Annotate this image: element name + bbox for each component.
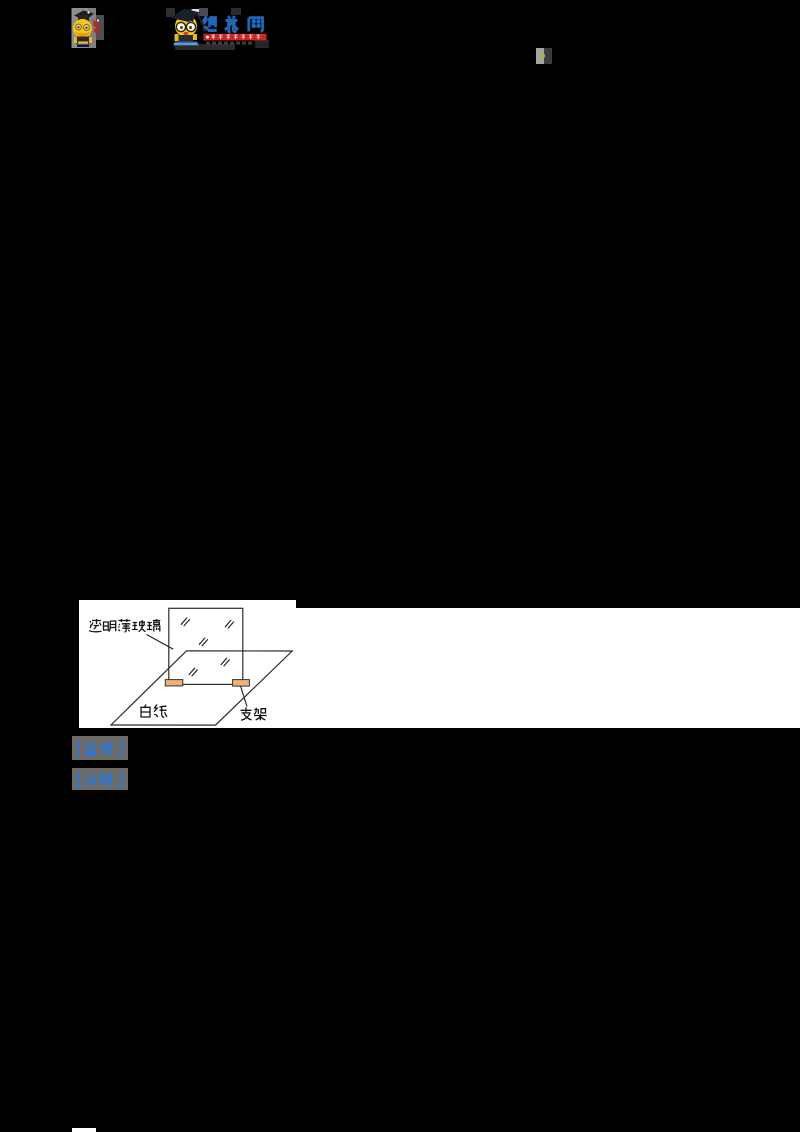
logo-left graduation cap (74, 11, 94, 21)
char 白 (141, 705, 150, 718)
logo-right grey caption row (206, 42, 252, 45)
char 答 (85, 743, 97, 756)
char 薄 (118, 619, 130, 632)
logo-right blue char 网 (249, 18, 263, 32)
support block right (233, 680, 250, 687)
hatch mark 1 (181, 618, 189, 626)
logo-left body (77, 37, 90, 45)
bracket left (78, 742, 81, 756)
logo-right faint mosaic patches (166, 8, 175, 17)
hatch mark 4 (221, 658, 229, 666)
char 纸 (154, 705, 167, 718)
logo-left sparkles (87, 11, 89, 13)
bracket left (78, 773, 81, 787)
char 璃 (147, 619, 161, 632)
white paper parallelogram (111, 651, 292, 725)
hatch mark 5 (189, 668, 197, 676)
logo-left grey backdrop (72, 8, 89, 48)
leader line to support label (241, 686, 248, 707)
char 明 (104, 621, 116, 632)
bracket right (119, 773, 122, 787)
logo-right blue char 卷 (225, 16, 238, 32)
char 案 (101, 742, 113, 755)
logo-left glasses (76, 24, 82, 30)
logo-left shoes (77, 45, 89, 48)
text 透明薄玻璃 (89, 619, 160, 632)
char 玻 (132, 620, 146, 632)
glass plate rectangle (169, 608, 243, 684)
leader line to glass label (147, 635, 174, 650)
char 架 (254, 708, 267, 721)
logo-right body (179, 35, 194, 42)
char 解 (101, 774, 113, 786)
logo-right mouth (183, 32, 188, 35)
hatch mark 2 (225, 620, 233, 628)
text 白纸 (141, 705, 167, 718)
logo-right glasses (176, 22, 185, 31)
logo-right red banner (204, 34, 267, 41)
logo-right graduation cap (171, 9, 200, 23)
logo-left bee head (73, 19, 92, 38)
char 详 (85, 775, 98, 787)
hatch mark 3 (199, 638, 207, 646)
logo-left red ribbon (93, 20, 99, 28)
bracket right (119, 742, 122, 756)
char 透 (89, 619, 102, 632)
char 支 (241, 707, 252, 720)
logo-right blue char 组 (204, 16, 217, 31)
logo-right bee head (175, 15, 197, 37)
support block left (165, 680, 183, 686)
logo-right blue book (173, 42, 199, 46)
text 支架 (241, 707, 267, 720)
